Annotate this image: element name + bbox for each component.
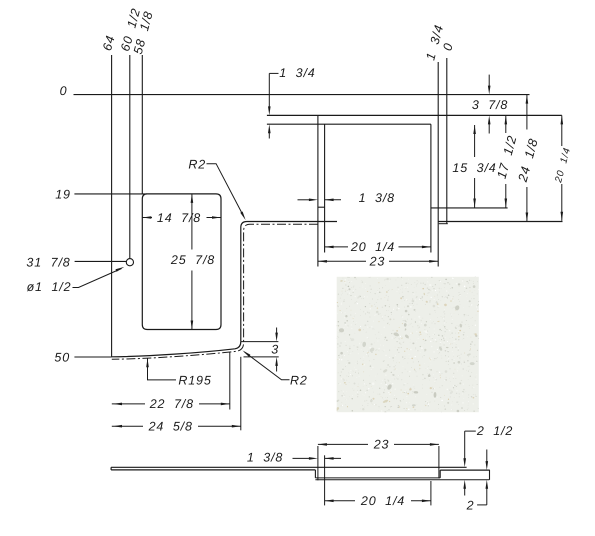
svg-text:24 5/8: 24 5/8 [148, 419, 193, 433]
section ext line 20 1/4 right [430, 481, 432, 505]
dim 25 7/8 bottom arrow [191, 321, 194, 330]
svg-text:3 7/8: 3 7/8 [472, 98, 508, 112]
station line 1 3/4 / sink outer right edge / ext for 23 dim [437, 62, 439, 267]
station line 64 / left edge of left piece [111, 55, 113, 357]
svg-text:R2: R2 [290, 373, 308, 387]
dim 24 5/8 right arrow [232, 425, 241, 428]
sink inner left edge + ext line [324, 124, 326, 252]
section 1 3/8 left-pointing arrow [325, 457, 334, 460]
sink rail bottom right + ext line [431, 207, 508, 209]
dim 1 3/4 down arrow [268, 106, 271, 115]
svg-text:3: 3 [271, 343, 279, 357]
dim 17 1/2 up arrow [505, 115, 508, 124]
svg-text:20 1/4: 20 1/4 [553, 146, 573, 185]
svg-text:0: 0 [440, 41, 456, 52]
leader arrow at hole [116, 267, 125, 272]
dim 23 left arrow (sink) [318, 260, 327, 263]
dim 2 up arrow [486, 480, 489, 489]
station line 60 1/2 down to hole [129, 55, 131, 259]
svg-text:R2: R2 [188, 157, 206, 171]
front R195 curved edge of left piece with R2 corner [112, 342, 241, 357]
section dim 23 left arrow [318, 443, 327, 446]
dim 25 7/8 top arrow [191, 194, 194, 203]
dim 3 up arrow [275, 357, 278, 366]
dim 20 1/4 left arrow (sink) [325, 246, 334, 249]
section dim 20 1/4 right arrow [422, 500, 431, 503]
section ext line 23 left [317, 446, 319, 480]
dim 14 7/8 right arrow [212, 216, 221, 219]
sink rail bottom step left [318, 206, 325, 208]
dash-dot polished edge line along inside corner and front curve [112, 224, 318, 359]
svg-text:14 7/8: 14 7/8 [157, 211, 201, 225]
extension of right edge down to 24 5/8 dim [240, 357, 242, 431]
right edge of left piece [240, 228, 242, 342]
dim 20 1/4 up arrow (right) [561, 115, 564, 124]
svg-text:19: 19 [55, 187, 71, 201]
dim 3 down arrow [275, 333, 278, 342]
svg-text:1 3/4: 1 3/4 [279, 66, 315, 80]
leader R2 top [207, 164, 244, 216]
dim 24 1/8 up arrow [526, 95, 529, 104]
dim 22 7/8 left arrow [113, 403, 122, 406]
svg-text:64: 64 [100, 34, 118, 53]
dim 3 lower tail [276, 364, 278, 371]
dim 3 7/8 upper tail [488, 75, 490, 87]
reference line y=50 [74, 356, 111, 358]
svg-text:1 3/8: 1 3/8 [247, 451, 283, 465]
sink inner right edge + ext line [430, 124, 432, 252]
dim 24 1/8 down arrow [526, 213, 529, 222]
dim 3 7/8 up arrow [488, 115, 491, 124]
svg-text:22 7/8: 22 7/8 [149, 397, 194, 411]
R2 top arrow [240, 212, 245, 221]
dim 3 7/8 lower tail [488, 123, 490, 134]
reference line y=19 [74, 193, 147, 195]
R195 leader [148, 358, 177, 380]
reference line y=31 7/8 to hole [75, 260, 127, 262]
svg-text:23: 23 [373, 438, 390, 452]
section: step down at sink rail left [314, 470, 316, 478]
svg-text:24 1/8: 24 1/8 [515, 136, 541, 184]
svg-text:50: 50 [54, 350, 70, 364]
back edge line of right piece [267, 114, 562, 116]
section: left end cap [110, 467, 112, 470]
svg-text:23: 23 [369, 255, 386, 269]
dim 3 upper tail [276, 328, 278, 335]
svg-text:20 1/4: 20 1/4 [350, 240, 395, 254]
dim 23 right arrow (sink) [429, 260, 438, 263]
dim 22 7/8 right arrow [221, 403, 230, 406]
svg-text:ø1 1/2: ø1 1/2 [27, 280, 72, 294]
dim 20 1/4 down arrow (right) [561, 212, 564, 221]
dim 20 1/4 right arrow (sink) [422, 246, 431, 249]
section: deck bottom line [111, 469, 315, 471]
front edge of right piece (right part) [438, 221, 562, 223]
ext line for 22 7/8 right [229, 352, 231, 410]
dim 1 3/4 up arrow [268, 124, 271, 133]
svg-text:0: 0 [60, 84, 68, 98]
dim 15 3/4 down arrow [473, 199, 476, 208]
material sample swatch [335, 276, 480, 413]
leader from diameter label to hole [73, 269, 122, 288]
section: step up at sink rail right [439, 470, 441, 478]
R195 arrow pointing up at curve [146, 358, 149, 367]
dim 1 3/4 bracket [269, 72, 278, 74]
svg-text:20 1/4: 20 1/4 [360, 494, 405, 508]
reference line y=0 [74, 94, 530, 96]
section: edge block top [440, 469, 490, 471]
2 1/2 up arrow [463, 480, 466, 489]
2 1/2 down arrow [463, 458, 466, 467]
svg-text:1 3/8: 1 3/8 [359, 191, 395, 205]
section ext line 1 3/8 / 20 1/4 left [324, 455, 326, 505]
inside corner R2 and bottom edge of right piece (left part) [241, 222, 337, 228]
svg-text:R195: R195 [178, 373, 211, 387]
svg-text:25 7/8: 25 7/8 [170, 253, 215, 267]
section: deck top line [111, 466, 467, 468]
2 1/2 bracket [465, 430, 476, 432]
short step line at station 0 [439, 223, 448, 225]
dim 2 upper tail [486, 450, 488, 463]
svg-text:2 1/2: 2 1/2 [476, 424, 513, 438]
svg-text:2: 2 [466, 499, 475, 513]
section: sink rail top line [315, 477, 440, 479]
sink outer left edge + ext line [317, 115, 319, 266]
section ext line 23 right [438, 446, 440, 478]
leader R2 bottom [245, 352, 290, 380]
dim 2 down arrow [486, 461, 489, 470]
dim 17 1/2 down arrow [505, 199, 508, 208]
section: bottom line [315, 479, 489, 481]
dim 14 7/8 left arrow [142, 216, 151, 219]
svg-text:31 7/8: 31 7/8 [26, 255, 70, 269]
svg-text:15 3/4: 15 3/4 [452, 161, 496, 175]
dim 15 3/4 up arrow [473, 125, 476, 134]
section 1 3/8 right-pointing arrow [309, 457, 318, 460]
faucet hole circle dia 1 1/2 [126, 259, 133, 266]
section dim 23 right arrow [430, 443, 439, 446]
station line 58 1/8 down to cutout [141, 55, 143, 194]
ext line top of 3 dim [241, 341, 279, 343]
dim 2 bracket [477, 504, 487, 506]
ext line bottom of 3 dim [244, 356, 279, 358]
cooktop cutout rounded rectangle [142, 194, 221, 330]
1 3/4 offset line of right piece [267, 123, 431, 125]
dim 24 5/8 left arrow [113, 425, 122, 428]
station line 0 [446, 58, 448, 224]
dim 3 7/8 down arrow [488, 86, 491, 95]
dim 1 3/8 left-pointing arrow [325, 199, 334, 202]
dim 1 3/8 left tail [298, 199, 311, 201]
R2 bottom arrow [242, 350, 250, 356]
section: right end cap [489, 470, 491, 480]
section dim 20 1/4 left arrow [325, 500, 334, 503]
dim 1 3/4 lower tail [268, 132, 270, 139]
